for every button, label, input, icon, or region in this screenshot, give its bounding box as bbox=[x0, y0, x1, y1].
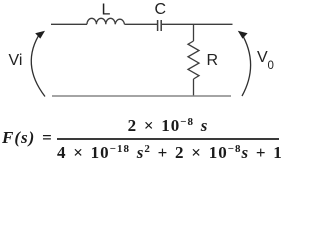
svg-text:V: V bbox=[257, 49, 268, 66]
svg-text:L: L bbox=[102, 2, 111, 19]
svg-text:Vi: Vi bbox=[9, 52, 23, 69]
svg-text:R: R bbox=[207, 52, 219, 69]
svg-text:C: C bbox=[155, 1, 167, 18]
svg-text:0: 0 bbox=[268, 60, 274, 72]
